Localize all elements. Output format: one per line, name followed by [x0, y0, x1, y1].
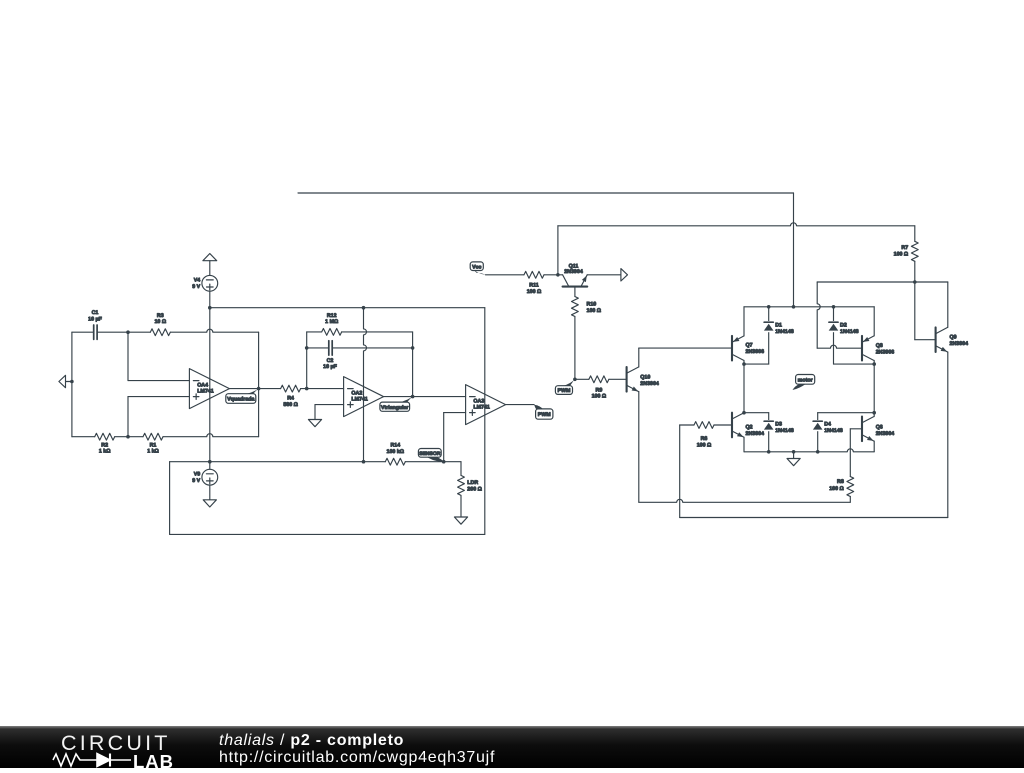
svg-text:LM741: LM741 — [197, 389, 214, 395]
svg-text:Q9: Q9 — [950, 335, 957, 341]
svg-text:Q7: Q7 — [746, 342, 753, 348]
svg-text:9 V: 9 V — [192, 284, 200, 290]
svg-text:R12: R12 — [327, 313, 337, 319]
svg-text:100 Ω: 100 Ω — [697, 443, 712, 449]
svg-text:2N3904: 2N3904 — [746, 431, 765, 437]
svg-text:R8: R8 — [837, 479, 844, 485]
svg-text:R10: R10 — [587, 301, 597, 307]
svg-text:D1: D1 — [775, 323, 782, 329]
svg-text:C2: C2 — [327, 358, 334, 364]
svg-text:Q10: Q10 — [640, 374, 650, 380]
svg-text:Vcc: Vcc — [472, 264, 481, 270]
svg-text:LDR: LDR — [467, 480, 478, 486]
svg-text:1N4148: 1N4148 — [824, 428, 843, 434]
svg-text:D4: D4 — [824, 421, 831, 427]
svg-text:R9: R9 — [596, 387, 603, 393]
svg-text:2N3904: 2N3904 — [876, 431, 895, 437]
svg-text:100 Ω: 100 Ω — [592, 394, 607, 400]
svg-text:SENSOR: SENSOR — [419, 451, 441, 457]
svg-text:9 V: 9 V — [192, 478, 200, 484]
svg-text:D2: D2 — [840, 323, 847, 329]
svg-text:560 Ω: 560 Ω — [283, 402, 298, 408]
svg-text:10 µF: 10 µF — [88, 316, 102, 322]
svg-text:200 Ω: 200 Ω — [467, 487, 482, 493]
svg-text:Q8: Q8 — [876, 343, 883, 349]
svg-text:10 µF: 10 µF — [323, 364, 337, 370]
svg-text:OA3: OA3 — [473, 398, 484, 404]
svg-text:Q6: Q6 — [876, 424, 883, 430]
svg-text:1N4148: 1N4148 — [775, 428, 794, 434]
svg-text:2N3904: 2N3904 — [950, 341, 969, 347]
svg-text:R2: R2 — [101, 442, 108, 448]
svg-text:Vquadrada: Vquadrada — [227, 397, 254, 403]
svg-text:R6: R6 — [701, 436, 708, 442]
svg-text:PWM: PWM — [538, 412, 552, 418]
svg-text:R1: R1 — [150, 442, 157, 448]
svg-text:LM741: LM741 — [473, 405, 490, 411]
svg-text:10 Ω: 10 Ω — [154, 319, 166, 325]
svg-text:1N4148: 1N4148 — [840, 329, 859, 335]
svg-text:Vtriangular: Vtriangular — [381, 405, 408, 411]
svg-text:R14: R14 — [390, 443, 400, 449]
svg-text:V4: V4 — [194, 277, 201, 283]
svg-text:D3: D3 — [775, 421, 782, 427]
svg-text:Q2: Q2 — [746, 424, 753, 430]
svg-text:100 kΩ: 100 kΩ — [387, 449, 405, 455]
svg-text:2N3904: 2N3904 — [564, 269, 583, 275]
svg-text:C1: C1 — [92, 310, 99, 316]
svg-text:OA2: OA2 — [351, 390, 362, 396]
svg-text:1 MΩ: 1 MΩ — [325, 319, 339, 325]
svg-text:2N3904: 2N3904 — [640, 381, 659, 387]
svg-text:2N3906: 2N3906 — [876, 350, 895, 356]
svg-text:100 Ω: 100 Ω — [587, 308, 602, 314]
svg-text:PWM: PWM — [557, 388, 571, 394]
svg-text:1 kΩ: 1 kΩ — [147, 449, 159, 455]
svg-text:R7: R7 — [901, 245, 908, 251]
svg-text:R11: R11 — [529, 283, 538, 289]
svg-text:R4: R4 — [287, 396, 294, 402]
svg-text:1N4148: 1N4148 — [775, 329, 794, 335]
svg-text:LM741: LM741 — [351, 397, 368, 403]
svg-text:OA4: OA4 — [197, 382, 208, 388]
svg-text:R3: R3 — [157, 313, 164, 319]
svg-text:100 Ω: 100 Ω — [829, 486, 844, 492]
svg-text:motor: motor — [798, 377, 813, 383]
svg-text:100 Ω: 100 Ω — [527, 289, 542, 295]
svg-text:V9: V9 — [194, 471, 201, 477]
svg-text:1 kΩ: 1 kΩ — [99, 449, 111, 455]
svg-text:100 Ω: 100 Ω — [894, 252, 909, 258]
svg-text:2N3906: 2N3906 — [746, 349, 765, 355]
